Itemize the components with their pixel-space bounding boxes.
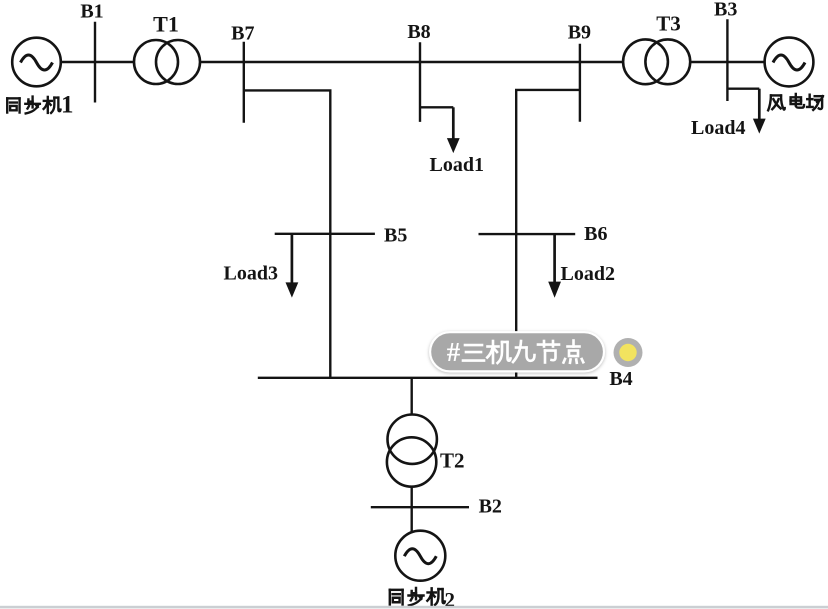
svg-text:T3: T3 — [656, 11, 681, 35]
svg-text:B2: B2 — [479, 496, 502, 518]
svg-text:B6: B6 — [584, 223, 607, 245]
svg-text:B7: B7 — [231, 23, 254, 45]
svg-text:#: # — [447, 337, 461, 367]
svg-text:Load3: Load3 — [224, 263, 278, 285]
svg-text:T2: T2 — [440, 448, 465, 472]
svg-text:B5: B5 — [384, 224, 407, 246]
svg-text:Load1: Load1 — [430, 154, 484, 176]
svg-text:B8: B8 — [407, 21, 430, 43]
svg-text:Load4: Load4 — [691, 117, 745, 139]
svg-text:B1: B1 — [80, 1, 103, 23]
svg-text:B4: B4 — [609, 368, 632, 390]
svg-text:B3: B3 — [714, 0, 737, 21]
svg-text:T1: T1 — [153, 12, 179, 37]
svg-text:B9: B9 — [568, 22, 591, 44]
svg-text:Load2: Load2 — [561, 263, 615, 285]
svg-text:1: 1 — [61, 92, 74, 119]
